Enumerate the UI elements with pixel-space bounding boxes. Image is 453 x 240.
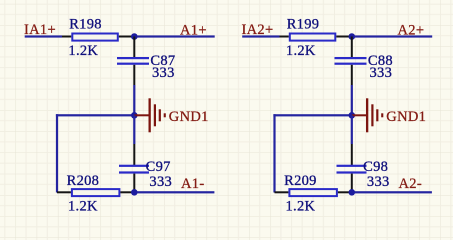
value 1.2K (R209): [286, 199, 316, 215]
capacitor C87: [117, 57, 149, 65]
power port GND1 bars: [149, 98, 166, 132]
designator C98: [363, 159, 388, 175]
junction node A1-: [131, 189, 138, 196]
power port GND1 lead: [134, 114, 148, 116]
resistor R198 pin 1: [62, 36, 71, 38]
designator R209: [284, 173, 317, 189]
wire C87 to GND node: [133, 85, 135, 115]
svg-text:R208: R208: [67, 173, 100, 189]
svg-text:R199: R199: [287, 17, 320, 33]
resistor R198 pin 2: [119, 36, 135, 38]
svg-text:333: 333: [370, 65, 393, 81]
wire IA1+ to R198: [25, 35, 62, 37]
designator R208: [67, 173, 100, 189]
capacitor C98 pin 1: [351, 144, 353, 165]
svg-text:A1+: A1+: [180, 23, 207, 39]
svg-text:C97: C97: [146, 159, 171, 175]
resistor R199 pin 2: [336, 36, 352, 38]
resistor R208 pin 2: [120, 191, 134, 193]
designator R198: [69, 17, 102, 33]
capacitor C88 pin 2: [351, 65, 353, 85]
junction GND node (circuit 2): [349, 112, 356, 119]
svg-text:333: 333: [367, 174, 390, 190]
wire to A2-: [355, 191, 432, 193]
value 333 (C87): [152, 65, 175, 81]
resistor R209 pin 1: [275, 191, 289, 193]
power port GND1 lead (circuit 2): [352, 114, 366, 116]
svg-text:1.2K: 1.2K: [286, 199, 316, 215]
wire left branch vertical (circuit 2): [273, 114, 275, 192]
capacitor C88 pin 1: [351, 37, 353, 58]
resistor R209 pin 2: [338, 191, 352, 193]
capacitor C97 pin 1: [133, 144, 135, 165]
value 333 (C97): [149, 174, 172, 190]
resistor R208 pin 1: [57, 191, 71, 193]
svg-text:1.2K: 1.2K: [68, 43, 98, 59]
svg-text:R198: R198: [69, 17, 102, 33]
value 1.2K (R199): [286, 43, 316, 59]
wire IA2+ to R199: [242, 35, 279, 37]
svg-text:333: 333: [152, 65, 175, 81]
designator C87: [150, 53, 175, 69]
net label A2-: [399, 176, 422, 192]
capacitor C87 pin 2: [133, 65, 135, 85]
svg-text:GND1: GND1: [386, 109, 426, 125]
svg-text:333: 333: [149, 174, 172, 190]
svg-text:GND1: GND1: [169, 109, 209, 125]
resistor R208: [72, 189, 120, 196]
wire to A2+: [355, 35, 433, 37]
wire GND node to left branch (circuit 2): [273, 114, 351, 116]
power port text GND1: [169, 109, 209, 125]
capacitor C97 pin 2: [133, 174, 135, 193]
wire C88 to GND node: [351, 85, 353, 115]
resistor R198: [72, 34, 118, 41]
junction GND node: [131, 112, 138, 119]
resistor R209: [289, 189, 337, 196]
net label A1+: [180, 23, 207, 39]
resistor R199 pin 1: [280, 36, 289, 38]
wire to A1+: [137, 35, 215, 37]
net label IA1+: [24, 22, 56, 38]
value 333 (C88): [370, 65, 393, 81]
svg-text:C98: C98: [363, 159, 388, 175]
net label IA2+: [242, 22, 274, 38]
net label A2+: [398, 23, 425, 39]
capacitor C88: [335, 57, 367, 65]
capacitor C98 pin 2: [351, 174, 353, 193]
designator C97: [146, 159, 171, 175]
svg-text:A2+: A2+: [398, 23, 425, 39]
power port GND1 bars (circuit 2): [366, 98, 383, 132]
wire left branch vertical: [56, 114, 58, 192]
svg-text:1.2K: 1.2K: [286, 43, 316, 59]
power port text GND1 (circuit 2): [386, 109, 426, 125]
capacitor C87 pin 1: [133, 37, 135, 58]
wire GND node to C97: [133, 115, 135, 144]
designator C88: [368, 53, 393, 69]
svg-text:1.2K: 1.2K: [68, 199, 98, 215]
designator R199: [287, 17, 320, 33]
capacitor C97: [119, 165, 149, 174]
junction node A1+: [131, 33, 138, 40]
svg-text:A1-: A1-: [181, 176, 204, 192]
value 333 (C98): [367, 174, 390, 190]
resistor R199: [290, 34, 336, 41]
capacitor C98: [337, 165, 367, 174]
net label A1-: [181, 176, 204, 192]
svg-text:R209: R209: [284, 173, 317, 189]
wire GND node to left branch: [56, 114, 134, 116]
value 1.2K (R208): [68, 199, 98, 215]
junction node A2-: [349, 189, 356, 196]
junction node A2+: [349, 33, 356, 40]
svg-text:A2-: A2-: [399, 176, 422, 192]
wire to A1-: [137, 191, 214, 193]
value 1.2K (R198): [68, 43, 98, 59]
wire GND node to C98: [351, 115, 353, 144]
